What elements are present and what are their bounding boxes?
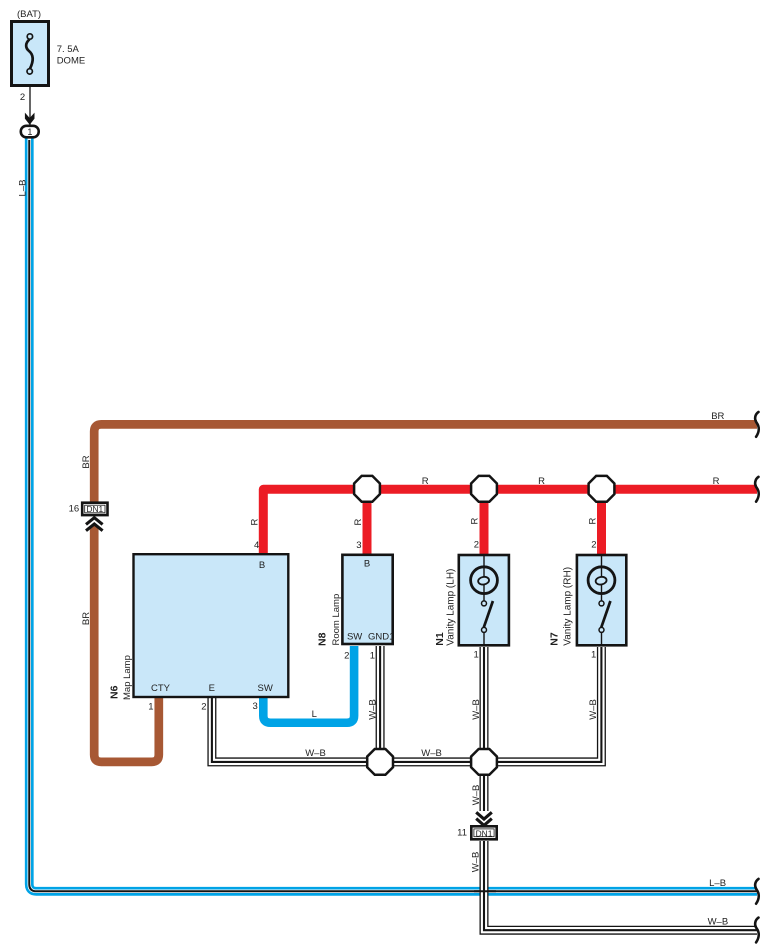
connector DN1 no.16 box <box>82 503 107 515</box>
relay box N8 Room Lamp <box>342 555 392 644</box>
svg-text:L–B: L–B <box>709 878 726 889</box>
wire L-B stripe patch over crossing <box>474 890 496 892</box>
svg-text:W–B: W–B <box>421 748 442 759</box>
svg-text:DN1: DN1 <box>476 828 493 838</box>
svg-text:N6: N6 <box>109 685 121 699</box>
wire L (cyan, N6 SW pin3 to N8 SW pin2) <box>263 646 354 723</box>
junction node (W-B) below N8 <box>367 749 393 775</box>
svg-text:E: E <box>209 683 215 694</box>
wire R stub (junction to N8 B pin3) <box>363 489 372 554</box>
connector oval 1 <box>21 126 39 138</box>
svg-text:11: 11 <box>457 828 467 839</box>
wire W-B (N1 pin1 down to junction) <box>480 647 489 762</box>
wire W-B (below DN1 no.11, crossing L-B, to bottom right) <box>484 841 757 930</box>
wire BR lower (DN1 no.16 down, across, up to N6 CTY pin1) <box>94 526 159 762</box>
svg-text:3: 3 <box>253 701 258 712</box>
svg-text:BR: BR <box>81 455 92 468</box>
svg-text:1: 1 <box>370 651 375 662</box>
svg-text:W–B: W–B <box>471 785 482 806</box>
svg-text:SW: SW <box>258 683 273 694</box>
break symbol R wire right end <box>755 477 759 502</box>
svg-text:Map Lamp: Map Lamp <box>122 655 133 700</box>
connector chevrons above DN1 no.11 (pointing down) <box>476 812 492 825</box>
bulb and switch symbol inside N7 <box>588 555 615 646</box>
svg-text:SW: SW <box>347 632 362 643</box>
svg-text:B: B <box>364 559 370 570</box>
svg-text:3: 3 <box>356 540 361 551</box>
svg-text:W–B: W–B <box>471 852 482 873</box>
connector chevrons below DN1 no.16 (pointing up) <box>86 518 103 531</box>
junction node (W-B) below N1 <box>471 749 497 775</box>
svg-text:(BAT): (BAT) <box>17 9 41 20</box>
fuse element symbol <box>26 34 33 74</box>
svg-text:W–B: W–B <box>588 699 599 720</box>
svg-text:16: 16 <box>69 504 80 515</box>
svg-text:L: L <box>312 709 317 720</box>
junction node (R) above N1 <box>471 476 497 502</box>
wire W-B (N8 GND1 pin1 down to junction) <box>376 646 385 762</box>
wire L-B main (from connector 1 down left side, across bottom) <box>29 138 757 891</box>
svg-text:W–B: W–B <box>367 699 378 720</box>
svg-text:1: 1 <box>474 650 479 661</box>
lamp box N1 Vanity Lamp (LH) <box>459 555 509 645</box>
svg-text:W–B: W–B <box>305 748 326 759</box>
svg-text:R: R <box>713 476 720 487</box>
break symbol W-B wire right end <box>755 918 759 943</box>
junction node (R) above N8 <box>354 476 380 502</box>
svg-text:2: 2 <box>20 92 25 103</box>
wire R stub (junction to N1 pin2) <box>480 489 489 554</box>
svg-text:2: 2 <box>591 540 596 551</box>
connector DN1 no.11 box <box>471 826 496 839</box>
svg-text:N7: N7 <box>549 632 561 646</box>
svg-text:R: R <box>250 518 261 525</box>
svg-text:W–B: W–B <box>708 917 729 928</box>
svg-text:4: 4 <box>254 540 259 551</box>
svg-text:W–B: W–B <box>471 699 482 720</box>
connector arrow (male, pointing down) <box>25 113 35 125</box>
svg-text:BR: BR <box>81 612 92 625</box>
wire fuse pin2 to connector <box>29 86 31 127</box>
svg-text:2: 2 <box>474 540 479 551</box>
wire R main (from N6 B pin4 up and across to right) <box>263 489 757 553</box>
svg-text:R: R <box>422 476 429 487</box>
svg-text:2: 2 <box>344 651 349 662</box>
svg-text:1: 1 <box>27 127 32 137</box>
wire W-B (N6 E pin2 across to N7 pin1) <box>212 647 602 762</box>
svg-text:CTY: CTY <box>151 683 171 694</box>
svg-text:1: 1 <box>591 650 596 661</box>
svg-text:7. 5A: 7. 5A <box>57 44 80 55</box>
svg-text:Room Lamp: Room Lamp <box>331 594 342 646</box>
junction node (R) above N7 <box>589 476 615 502</box>
svg-text:Vanity Lamp (RH): Vanity Lamp (RH) <box>562 567 573 646</box>
svg-text:DOME: DOME <box>57 56 85 67</box>
bulb and switch symbol inside N1 <box>471 555 498 646</box>
svg-text:Vanity Lamp (LH): Vanity Lamp (LH) <box>445 569 456 646</box>
svg-text:R: R <box>538 476 545 487</box>
svg-text:2: 2 <box>201 702 206 713</box>
fuse 7.5A DOME box <box>12 22 49 86</box>
svg-text:R: R <box>587 517 598 524</box>
svg-text:B: B <box>259 560 265 571</box>
svg-text:1: 1 <box>148 702 153 713</box>
wire R stub (junction to N7 pin2) <box>597 489 606 554</box>
wire BR upper (across top to DN1 no.16) <box>94 424 757 501</box>
svg-text:BR: BR <box>711 411 724 422</box>
relay box N6 Map Lamp <box>134 554 289 697</box>
svg-text:R: R <box>353 518 364 525</box>
svg-text:DN1: DN1 <box>86 504 103 514</box>
lamp box N7 Vanity Lamp (RH) <box>577 555 626 645</box>
svg-text:L–B: L–B <box>17 180 28 197</box>
break symbol L-B wire right end <box>755 879 759 904</box>
wire W-B (junction down to DN1 no.11) <box>480 762 489 811</box>
svg-text:R: R <box>470 517 481 524</box>
svg-text:GND1: GND1 <box>368 632 394 643</box>
break symbol BR wire right end <box>755 412 759 437</box>
svg-text:N8: N8 <box>316 632 328 646</box>
